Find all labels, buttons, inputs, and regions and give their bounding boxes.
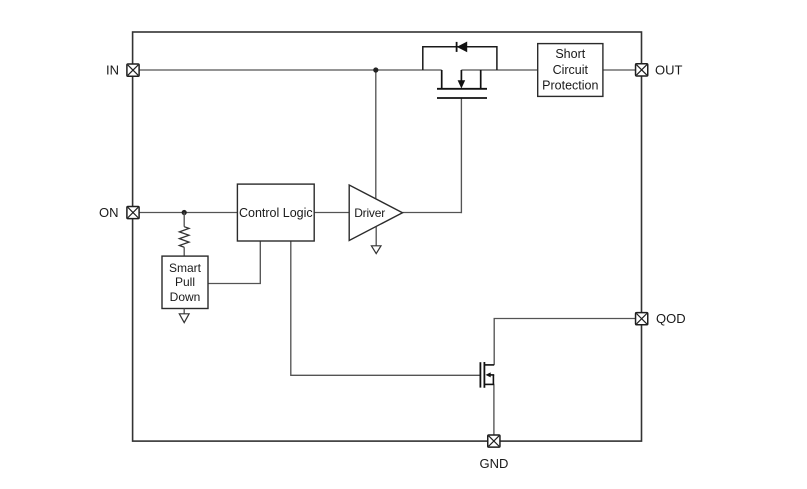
transistor Q2 QOD NMOS FET — [480, 362, 494, 388]
svg-text:Down: Down — [170, 290, 201, 304]
wire IN rail: IN pin to pass FET source — [139, 69, 441, 71]
wire vertical from IN rail down to Driver supply — [375, 70, 377, 199]
wire Control Logic to QOD FET gate — [291, 241, 480, 375]
pin OUT — [636, 64, 648, 76]
wire Short Circuit Protection to OUT pin — [603, 69, 635, 71]
label IN — [106, 63, 119, 78]
box U4 Smart Pull Down — [162, 256, 208, 308]
pin QOD — [636, 313, 648, 325]
resistor R (smart pull down) zigzag — [179, 227, 189, 248]
wire Control Logic to Driver input — [314, 212, 349, 214]
label QOD — [656, 311, 686, 326]
label ON — [99, 205, 119, 220]
ground symbol below Smart Pull Down — [179, 309, 189, 323]
svg-text:Control Logic: Control Logic — [239, 206, 313, 220]
svg-text:IN: IN — [106, 63, 119, 78]
svg-text:Driver: Driver — [354, 206, 385, 220]
op-amp U3 Driver triangle — [349, 185, 402, 241]
svg-text:Circuit: Circuit — [553, 63, 589, 77]
box U2 Short Circuit Protection — [538, 44, 603, 97]
wire QOD pin to QOD FET drain — [494, 319, 635, 365]
svg-text:QOD: QOD — [656, 311, 686, 326]
wire Driver output to pass FET gate — [403, 98, 462, 213]
IC boundary rectangle — [133, 32, 642, 441]
label OUT — [655, 62, 683, 77]
box U1 Control Logic — [237, 184, 314, 241]
node junction dot on IN rail — [373, 67, 378, 72]
svg-text:ON: ON — [99, 205, 119, 220]
label GND — [480, 456, 509, 471]
transistor Q1 pass PMOS FET — [437, 70, 487, 98]
ground symbol below Driver — [371, 227, 381, 254]
svg-text:Smart: Smart — [169, 261, 202, 275]
wire pass FET drain to Short Circuit Protection — [461, 69, 537, 71]
wire Control Logic to Smart Pull Down — [208, 241, 260, 284]
body diode of pass FET loop wiring — [423, 47, 497, 70]
pin ON — [127, 206, 139, 218]
svg-text:Pull: Pull — [175, 275, 195, 289]
svg-text:GND: GND — [480, 456, 509, 471]
wire QOD FET source to GND pin — [493, 384, 495, 435]
svg-text:OUT: OUT — [655, 62, 683, 77]
diode D1 (body diode, pointing left) — [457, 42, 467, 52]
svg-text:Short: Short — [555, 47, 585, 61]
wire ON pin to Control Logic — [139, 212, 237, 214]
pin GND — [488, 435, 500, 447]
node junction dot on ON wire — [182, 210, 187, 215]
wire resistor to Smart Pull Down box — [183, 247, 185, 256]
wire junction dot down to resistor — [183, 213, 185, 227]
svg-text:Protection: Protection — [542, 79, 598, 93]
pin IN — [127, 64, 139, 76]
